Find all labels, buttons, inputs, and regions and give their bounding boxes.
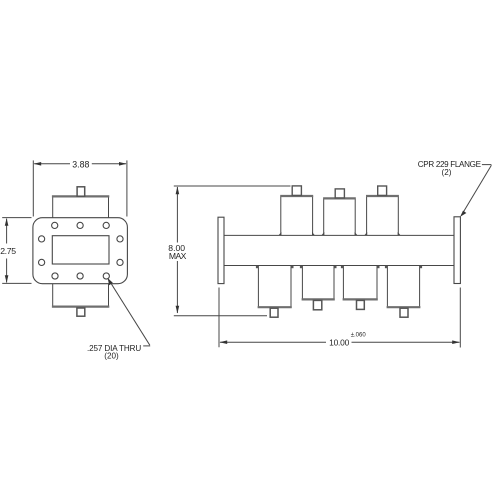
svg-text:±.060: ±.060	[351, 332, 367, 338]
top load body 2	[324, 199, 356, 235]
bottom load body 3	[343, 266, 377, 299]
bottom stub 3	[357, 300, 365, 309]
top stub 2	[335, 189, 344, 198]
svg-text:3.88: 3.88	[72, 159, 89, 169]
tuning stub top (front view)	[77, 187, 85, 196]
body bottom thick edge	[52, 306, 109, 308]
bottom stub 1	[270, 308, 278, 317]
svg-text:2.75: 2.75	[0, 246, 16, 256]
right flange (side view)	[454, 217, 460, 284]
waveguide body bottom (front view)	[53, 284, 109, 306]
svg-text:(20): (20)	[104, 352, 119, 361]
leader .257 DIA THRU	[108, 279, 149, 345]
svg-text:10.00: 10.00	[329, 338, 350, 348]
top stub 1	[292, 186, 301, 196]
body top thick edge	[52, 195, 109, 197]
svg-text:(2): (2)	[442, 168, 452, 177]
waveguide body top (front view)	[53, 197, 109, 219]
top load body 1	[281, 196, 313, 235]
bottom load body 1	[258, 266, 291, 307]
waveguide aperture	[52, 236, 109, 264]
bottom stub 2	[313, 300, 321, 309]
dimension 2.75	[2, 218, 31, 284]
tuning stub bottom (front view)	[77, 308, 85, 316]
flange plate (front view)	[33, 218, 128, 284]
bottom load body 2	[302, 266, 334, 299]
dimension 10.00	[219, 288, 460, 348]
dimension 3.88	[33, 160, 127, 216]
bottom stub 4	[400, 308, 408, 317]
svg-text:MAX: MAX	[169, 251, 187, 261]
bottom load body 4	[387, 266, 419, 307]
bolt holes (.257 dia, 10 shown)	[39, 222, 124, 279]
top load body 3	[367, 196, 399, 235]
top stub 3	[378, 186, 387, 195]
dimension 8.00 MAX	[174, 186, 291, 316]
left flange (side view)	[218, 217, 224, 283]
main waveguide body (side view)	[224, 235, 454, 265]
leader to right flange	[461, 165, 491, 215]
